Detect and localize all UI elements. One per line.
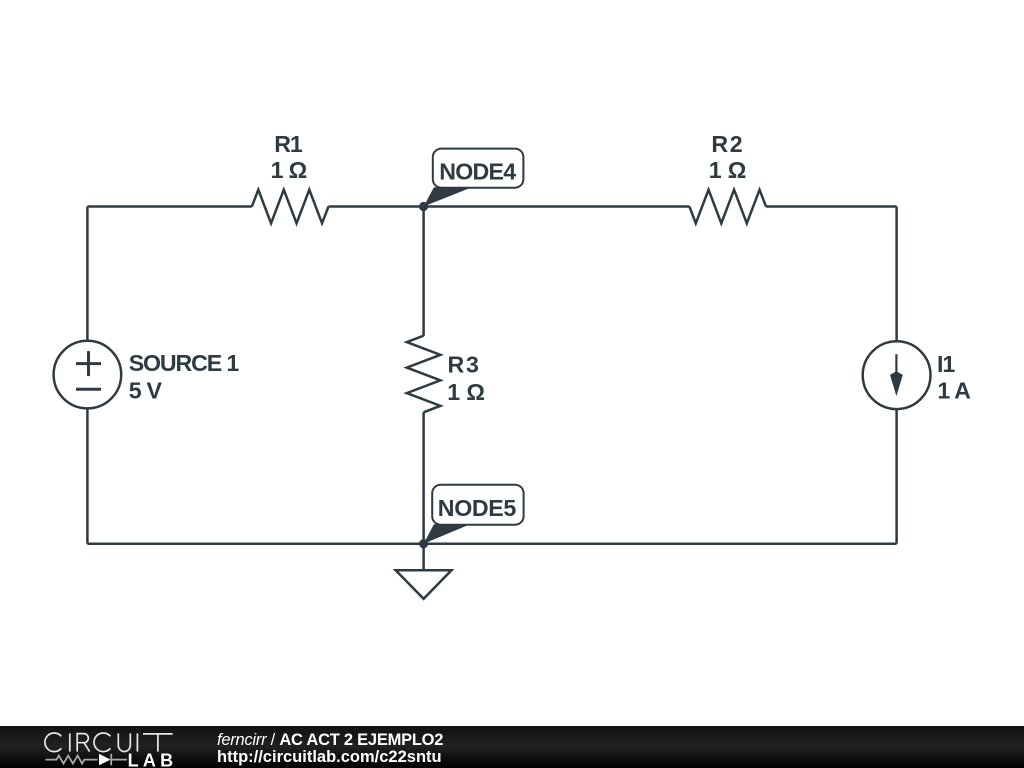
svg-text:R1: R1 (274, 131, 303, 157)
svg-text:1 Ω: 1 Ω (709, 157, 747, 183)
svg-text:NODE4: NODE4 (439, 159, 516, 185)
svg-text:1 Ω: 1 Ω (271, 157, 308, 183)
svg-text:1 A: 1 A (937, 378, 971, 404)
svg-text:SOURCE 1: SOURCE 1 (129, 350, 240, 376)
svg-text:5 V: 5 V (129, 378, 163, 404)
svg-text:R3: R3 (448, 352, 479, 378)
svg-text:I1: I1 (937, 351, 955, 377)
svg-text:NODE5: NODE5 (438, 495, 517, 521)
svg-text:LAB: LAB (128, 751, 174, 768)
svg-text:R2: R2 (711, 131, 742, 157)
svg-text:1 Ω: 1 Ω (447, 379, 485, 405)
